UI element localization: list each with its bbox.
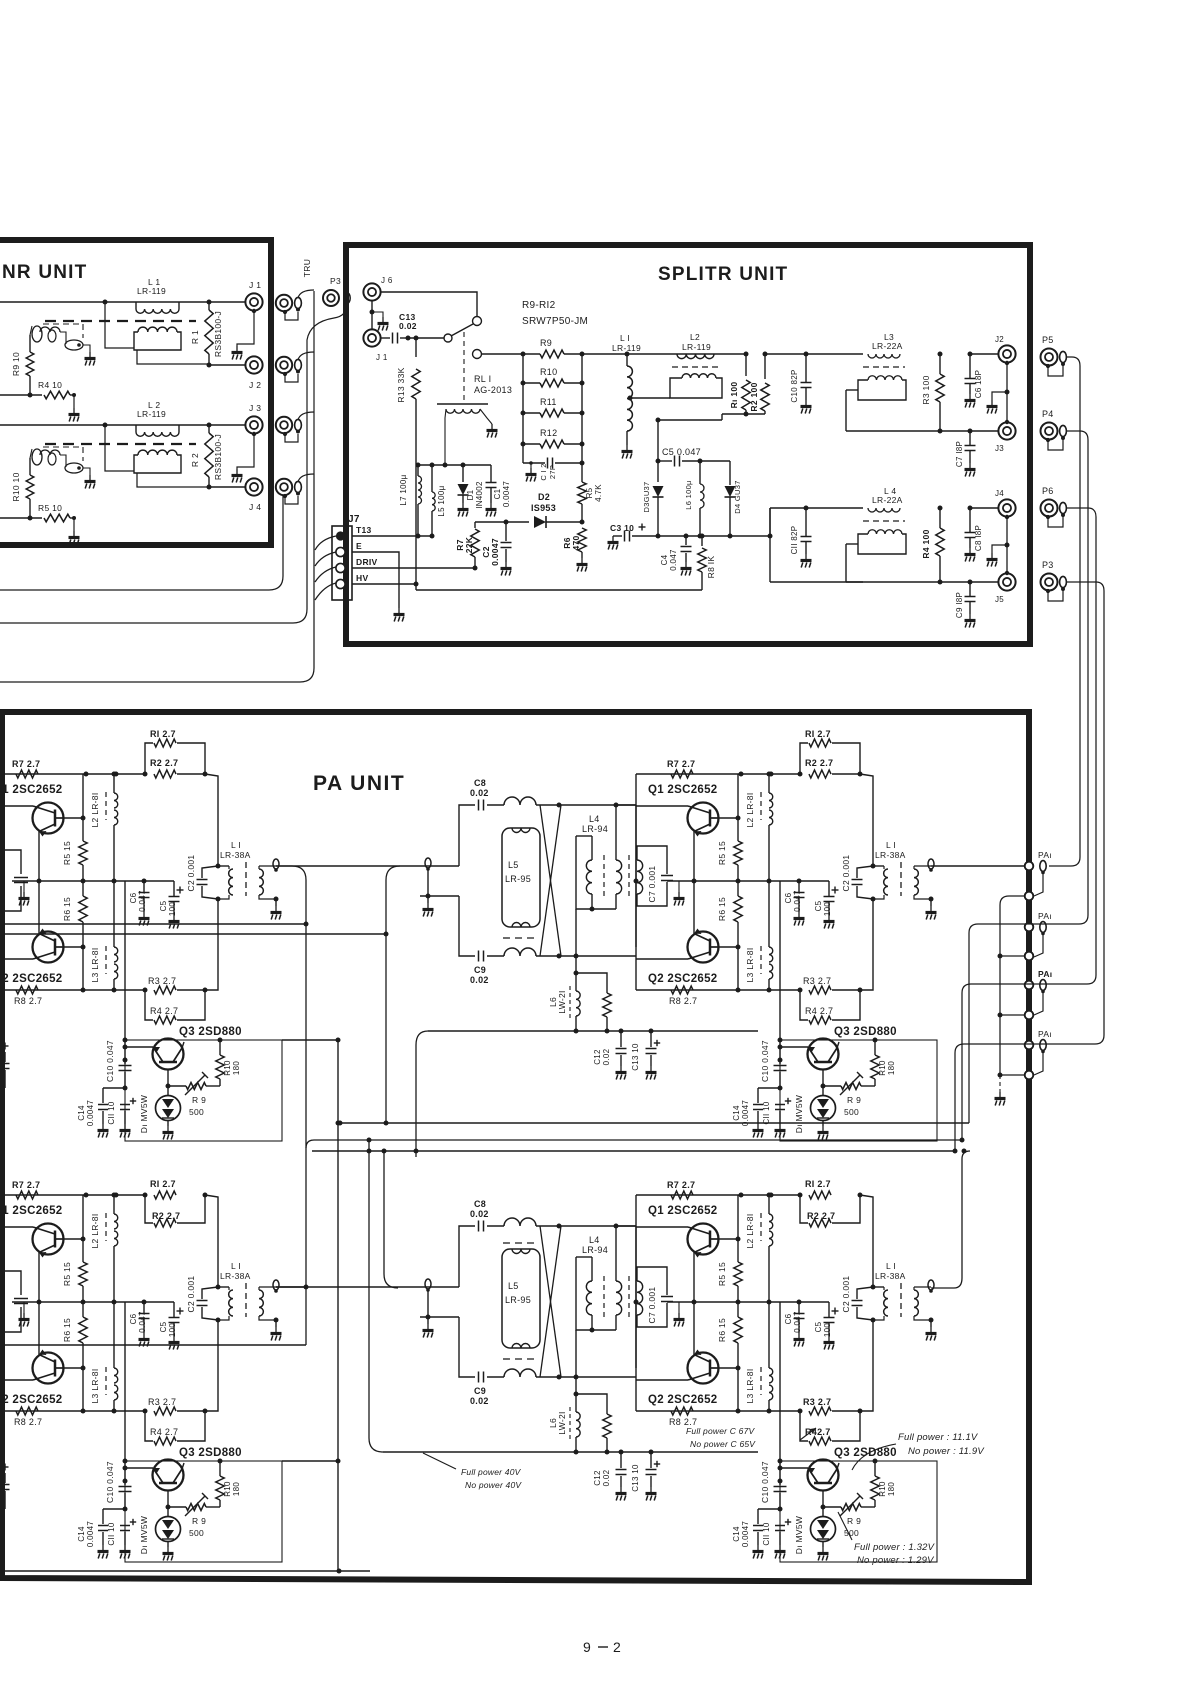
wire Q2 emitter (D) — [693, 1302, 695, 1355]
svg-text:P3: P3 — [330, 276, 341, 286]
svg-text:R3 2.7: R3 2.7 — [803, 976, 831, 986]
svg-text:Q3 2SD880: Q3 2SD880 — [179, 1026, 242, 1038]
svg-text:LR-38A: LR-38A — [220, 1271, 251, 1281]
svg-text:Q3 2SD880: Q3 2SD880 — [834, 1026, 897, 1038]
svg-text:L4: L4 — [589, 1235, 600, 1245]
svg-text:J2: J2 — [995, 335, 1004, 344]
coil top (top) — [504, 797, 536, 805]
svg-text:D2: D2 — [538, 492, 550, 502]
svg-text:No power : 1.29V: No power : 1.29V — [857, 1555, 935, 1566]
wire rail to C10 — [765, 353, 863, 355]
svg-text:D3GU37: D3GU37 — [642, 482, 651, 513]
svg-text:R9-RI2: R9-RI2 — [522, 300, 556, 311]
svg-text:LR-22A: LR-22A — [872, 495, 903, 505]
svg-text:L3 LR-8I: L3 LR-8I — [90, 947, 100, 982]
ground C6 18P — [969, 394, 971, 399]
svg-text:2: 2 — [613, 1639, 621, 1655]
svg-text:0.0047: 0.0047 — [741, 1521, 750, 1548]
wire L2 top rail — [677, 353, 746, 355]
capacitor C5 100 (C) — [177, 1310, 184, 1312]
svg-text:C10 0.047: C10 0.047 — [760, 1040, 770, 1082]
dashed coupling line NR ch2 — [45, 443, 196, 445]
wire bus vertical x338 — [337, 1040, 339, 1571]
wire PA1 inner stub y1015 — [1000, 1014, 1025, 1016]
wire bias feed (A) — [124, 881, 126, 1040]
svg-text:C10 0.047: C10 0.047 — [105, 1040, 115, 1082]
wire L 4 secondary to rail — [846, 543, 858, 545]
PA1 feedthrough connectors — [1025, 862, 1034, 871]
wire to C2 (A) — [205, 774, 218, 866]
mating plug pair J3 — [276, 417, 292, 433]
bias box (B) — [780, 1040, 937, 1141]
crossover wires (bottom) — [540, 1226, 561, 1377]
ground balun (top) — [427, 896, 429, 903]
svg-text:Q2 2SC2652: Q2 2SC2652 — [0, 973, 63, 985]
wire bottom rail combiner (bottom) — [536, 1376, 576, 1378]
wire Q1 base (D) — [636, 1226, 688, 1228]
wire top rail cell A — [0, 773, 146, 775]
svg-text:L I: L I — [886, 1261, 896, 1271]
svg-text:C I 2: C I 2 — [539, 463, 548, 480]
wire PA1 inner stub y1075 — [1000, 1074, 1025, 1076]
svg-text:R6 15: R6 15 — [62, 897, 72, 921]
ground C3 — [612, 536, 614, 541]
svg-text:TRU: TRU — [302, 259, 312, 277]
wire Q2 emitter (B) — [693, 881, 695, 934]
wire Q1 emitter (A) — [38, 831, 40, 881]
NR L2 secondary winding — [138, 450, 177, 455]
resistor ladder bus right — [581, 354, 583, 482]
svg-text:C6: C6 — [129, 892, 138, 903]
svg-text:100: 100 — [823, 1323, 832, 1337]
wire J6 to switch — [380, 292, 477, 316]
svg-text:0.047: 0.047 — [138, 890, 147, 912]
svg-text:R 9: R 9 — [847, 1095, 861, 1105]
svg-text:R5: R5 — [585, 487, 594, 498]
svg-text:R 9: R 9 — [847, 1516, 861, 1526]
svg-text:PAı: PAı — [1038, 1029, 1052, 1039]
coil bottom (top) — [504, 948, 536, 956]
svg-text:No power : 11.9V: No power : 11.9V — [908, 1446, 985, 1457]
svg-text:C2 0.001: C2 0.001 — [186, 1276, 196, 1313]
NR L1 secondary winding — [138, 327, 177, 332]
svg-text:CII 10: CII 10 — [107, 1101, 116, 1124]
svg-text:C14: C14 — [77, 1105, 86, 1121]
svg-text:R 2: R 2 — [190, 453, 200, 467]
svg-text:J 3: J 3 — [249, 403, 261, 413]
ground C1 — [490, 503, 492, 508]
wire bottom inner — [0, 1570, 370, 1572]
capacitor C5 100 (B) — [832, 889, 839, 891]
wire R2 to J 4 — [209, 486, 246, 488]
ground C12 (top) — [620, 1066, 622, 1071]
svg-text:RI 2.7: RI 2.7 — [805, 1179, 831, 1189]
wire cell A output down bus — [276, 866, 306, 1345]
svg-text:C14: C14 — [77, 1526, 86, 1542]
svg-text:C10 0.047: C10 0.047 — [760, 1461, 770, 1503]
svg-text:Q1 2SC2652: Q1 2SC2652 — [648, 784, 718, 796]
svg-text:J7: J7 — [348, 514, 360, 525]
output lead (D) — [928, 1280, 934, 1290]
wire Q2 base (D) — [636, 1379, 688, 1381]
wire bottom rail combiner (top) — [536, 955, 576, 957]
dashed core L5 (bottom) — [503, 1358, 538, 1360]
svg-text:L5 100μ: L5 100μ — [437, 485, 446, 516]
PA1 plug 3 return hook — [1034, 992, 1043, 1016]
wire Q3 base (A) — [125, 1046, 153, 1048]
svg-text:C7 0.001: C7 0.001 — [647, 866, 657, 903]
wire B+ vertical feed — [416, 1031, 428, 1157]
ground NR R4 — [73, 408, 75, 413]
svg-text:0.02: 0.02 — [602, 1469, 611, 1486]
svg-text:T13: T13 — [356, 525, 372, 535]
svg-text:R7 2.7: R7 2.7 — [12, 759, 40, 769]
svg-text:J 1: J 1 — [376, 353, 388, 362]
PA1 plug 4 return hook — [1034, 1052, 1043, 1076]
transformer L5 LR-95 (bottom) — [502, 1249, 540, 1348]
J7 pin HV — [336, 579, 345, 588]
svg-text:500: 500 — [844, 1107, 859, 1117]
wire top rail cell B — [636, 773, 801, 775]
ground C14 (D) — [757, 1545, 759, 1550]
svg-text:PA UNIT: PA UNIT — [313, 772, 405, 795]
svg-text:L3 LR-8I: L3 LR-8I — [90, 1368, 100, 1403]
svg-text:C2 0.001: C2 0.001 — [841, 855, 851, 892]
ground D1 (D) — [822, 1541, 824, 1547]
svg-text:C2 0.001: C2 0.001 — [186, 855, 196, 892]
svg-text:RI 2.7: RI 2.7 — [150, 729, 176, 739]
wire Q1 base (B) — [636, 805, 688, 807]
resistor R1 RS3B100-J — [208, 302, 210, 310]
P plug mates — [1060, 351, 1067, 362]
wire L4 bottom (top) — [575, 909, 577, 956]
wire diode node rail — [658, 535, 770, 537]
wire balun (top) — [427, 869, 429, 896]
svg-text:C5: C5 — [814, 900, 823, 911]
svg-text:C13 10: C13 10 — [631, 1043, 640, 1071]
J7 pin DRIV — [336, 563, 345, 572]
svg-text:Full power C 67V: Full power C 67V — [686, 1426, 756, 1436]
svg-text:Dı MV5W: Dı MV5W — [794, 1095, 804, 1133]
ground C14 (B) — [757, 1124, 759, 1129]
ground emitter (C) — [23, 1302, 25, 1313]
svg-text:L3 LR-8I: L3 LR-8I — [745, 947, 755, 982]
wire Q1 collector (D) — [718, 1238, 738, 1240]
svg-text:R13 33K: R13 33K — [396, 367, 406, 402]
ground C8 I8P — [969, 548, 971, 553]
svg-text:IS953: IS953 — [531, 503, 556, 513]
svg-text:LR-95: LR-95 — [505, 874, 531, 884]
input lead circle — [473, 350, 482, 359]
connector J7 block — [332, 526, 352, 600]
wire T13 feed — [352, 535, 432, 537]
wire bias feed (B) — [779, 881, 781, 1040]
wire top rail combiner (top) — [536, 804, 636, 806]
svg-text:P4: P4 — [1042, 409, 1054, 419]
ground C11 (C) — [124, 1545, 126, 1550]
svg-text:0.0047: 0.0047 — [86, 1100, 95, 1127]
wire mate bundle vertical — [313, 291, 315, 474]
svg-text:AG-2013: AG-2013 — [474, 385, 512, 395]
ground D1 (C) — [167, 1541, 169, 1547]
ground C5 (A) — [173, 915, 175, 920]
wire NR top rail ch2 — [0, 424, 246, 426]
svg-text:L2 LR-8I: L2 LR-8I — [90, 792, 100, 827]
ground C12 — [530, 463, 532, 468]
wire cell D output routing — [931, 1151, 970, 1288]
svg-text:0.02: 0.02 — [470, 975, 489, 985]
svg-text:C14: C14 — [732, 1105, 741, 1121]
svg-text:100: 100 — [168, 1323, 177, 1337]
ground C11 (A) — [124, 1124, 126, 1129]
wire bias feed (C) — [124, 1302, 126, 1461]
wire harness exit 1 — [0, 496, 283, 590]
ground emitter (A) — [23, 881, 25, 892]
wire R1 R2 bottom — [722, 413, 765, 415]
svg-text:C10 82P: C10 82P — [790, 369, 799, 402]
ground C6 (B) — [798, 912, 800, 917]
svg-text:NR UNIT: NR UNIT — [2, 262, 87, 283]
svg-text:R8 IK: R8 IK — [706, 556, 716, 579]
ground right bus — [999, 1075, 1001, 1092]
svg-text:J5: J5 — [995, 595, 1004, 604]
wire bias rail cell C to bus — [282, 1460, 338, 1462]
wire lower half feed — [769, 508, 771, 536]
svg-text:R10: R10 — [540, 367, 557, 377]
NR UNIT box — [0, 240, 271, 545]
wire Q2 base (C) — [0, 1379, 33, 1381]
output lead (C) — [273, 1280, 279, 1290]
svg-text:Q2 2SC2652: Q2 2SC2652 — [648, 973, 718, 985]
wire mid horizontal y924 — [0, 923, 306, 925]
wire J7 pin hooks — [315, 536, 336, 550]
svg-text:Q1 2SC2652: Q1 2SC2652 — [0, 1205, 63, 1217]
svg-text:R8 2.7: R8 2.7 — [669, 996, 697, 1006]
svg-text:R9: R9 — [540, 338, 552, 348]
svg-text:RS3B100-J: RS3B100-J — [213, 434, 223, 480]
wire J6-J1 link — [371, 300, 373, 330]
wire bus y1140 — [306, 1140, 962, 1148]
bias box (D) — [780, 1461, 937, 1562]
wire cell B output to PA1 — [931, 865, 1025, 867]
svg-text:C14: C14 — [732, 1526, 741, 1542]
svg-text:P3: P3 — [1042, 560, 1054, 570]
svg-text:500: 500 — [189, 1528, 204, 1538]
coil top (bottom) — [504, 1218, 536, 1226]
mating plug pair J4 — [276, 479, 292, 495]
SPLITR UNIT box — [346, 245, 1030, 644]
svg-text:0.02: 0.02 — [399, 321, 417, 331]
wire mid horizontal y934 — [0, 933, 386, 935]
wire Q3 emitter (B) — [822, 1070, 824, 1096]
wire balun (bottom) — [427, 1290, 429, 1317]
svg-text:R 1: R 1 — [190, 330, 200, 344]
ground L1 out (B) — [930, 899, 932, 906]
svg-text:R2 2.7: R2 2.7 — [150, 758, 178, 768]
cut capacitor fragment left edge (top) — [2, 1045, 9, 1047]
svg-text:Full power 40V: Full power 40V — [461, 1467, 522, 1477]
wire Q2 base (A) — [0, 958, 33, 960]
ground C11 (B) — [779, 1124, 781, 1129]
svg-text:R5 15: R5 15 — [62, 841, 72, 865]
wire Q1 base (C) — [0, 1226, 33, 1228]
J7 pin T13 — [336, 531, 345, 540]
svg-text:CII 82P: CII 82P — [790, 526, 799, 555]
svg-text:Q2 2SC2652: Q2 2SC2652 — [0, 1394, 63, 1406]
svg-text:9: 9 — [583, 1639, 591, 1655]
svg-text:C5: C5 — [814, 1321, 823, 1332]
svg-text:C13 10: C13 10 — [631, 1464, 640, 1492]
svg-text:Dı MV5W: Dı MV5W — [139, 1516, 149, 1554]
wire Q3 emitter (C) — [167, 1491, 169, 1517]
svg-text:C5: C5 — [159, 1321, 168, 1332]
svg-text:R6 15: R6 15 — [717, 1318, 727, 1342]
svg-text:C9: C9 — [474, 965, 486, 975]
transformer L5 LR-95 (top) — [502, 828, 540, 927]
wire bottom rail (A) — [0, 989, 145, 991]
ground C5 (C) — [173, 1336, 175, 1341]
relay contact throw — [473, 317, 482, 326]
transformer bead pair (top) — [637, 860, 643, 894]
output lead (A) — [273, 859, 279, 869]
ground NR bead ch2 — [89, 475, 91, 480]
svg-text:PAı: PAı — [1038, 850, 1052, 860]
wire input rail (bottom) — [276, 1286, 459, 1288]
wire HV — [352, 583, 416, 585]
svg-text:R11: R11 — [540, 397, 557, 407]
svg-text:C8: C8 — [474, 1199, 486, 1209]
dashed core L2 — [672, 366, 720, 368]
svg-text:J 6: J 6 — [381, 276, 393, 285]
svg-text:R5 15: R5 15 — [717, 841, 727, 865]
wire bottom rail (B) — [636, 989, 800, 991]
svg-text:100: 100 — [823, 902, 832, 916]
wire Q3 base (B) — [780, 1046, 808, 1048]
svg-text:IN4002: IN4002 — [475, 481, 484, 509]
svg-text:L4: L4 — [589, 814, 600, 824]
svg-text:R5 15: R5 15 — [717, 1262, 727, 1286]
svg-text:Rı 100: Rı 100 — [729, 382, 739, 409]
svg-text:C9 I8P: C9 I8P — [955, 592, 964, 618]
wire top rail combiner (bottom) — [536, 1225, 636, 1227]
wire top balun feed — [386, 866, 400, 1123]
wire combiner to bases (bottom) — [616, 1225, 636, 1227]
svg-text:180: 180 — [232, 1061, 241, 1075]
svg-text:0.047: 0.047 — [793, 1311, 802, 1333]
svg-text:C5: C5 — [159, 900, 168, 911]
ground C11 (D) — [779, 1545, 781, 1550]
svg-text:C12: C12 — [593, 1049, 602, 1065]
svg-text:L2 LR-8I: L2 LR-8I — [745, 1213, 755, 1248]
wire Q2 base (B) — [636, 958, 688, 960]
ground J7 E — [398, 608, 400, 613]
dashed core L4 (top) — [603, 855, 605, 900]
svg-text:R5 10: R5 10 — [38, 503, 62, 513]
wire Q1 collector (B) — [718, 817, 738, 819]
svg-text:L I: L I — [231, 1261, 241, 1271]
wire top rail cell D — [636, 1194, 801, 1196]
svg-text:J3: J3 — [995, 444, 1004, 453]
ground relay coil — [491, 424, 493, 429]
ferrite bead NR ch2 — [65, 463, 83, 473]
svg-text:R3 100: R3 100 — [921, 375, 931, 404]
wire bottom balun feed — [384, 1151, 398, 1288]
wire C2 node to R3 (B) — [860, 899, 873, 990]
svg-text:R6 15: R6 15 — [717, 897, 727, 921]
relay dashed link — [463, 332, 465, 400]
ground L1 out (A) — [275, 899, 277, 906]
wire emitter rail (C) — [12, 1301, 174, 1303]
svg-text:No power 40V: No power 40V — [465, 1480, 522, 1490]
svg-text:J 2: J 2 — [249, 380, 261, 390]
ground C6 (D) — [798, 1333, 800, 1338]
svg-text:LR-38A: LR-38A — [875, 850, 906, 860]
svg-text:C12: C12 — [593, 1470, 602, 1486]
wire relay to D1 rail — [418, 464, 491, 466]
wire Q1 collector (C) — [63, 1238, 83, 1240]
svg-text:L I: L I — [231, 840, 241, 850]
wire R1 to J 2 — [209, 364, 246, 366]
ground L1 out (D) — [930, 1320, 932, 1327]
svg-text:R 9: R 9 — [192, 1095, 206, 1105]
svg-text:R8 2.7: R8 2.7 — [14, 1417, 42, 1427]
wire L3 secondary to rail — [846, 389, 858, 391]
ground D1 — [462, 503, 464, 508]
dashed box NR ch1 — [43, 323, 83, 325]
wire C2 node to R3 (D) — [860, 1320, 873, 1411]
ground L1 splitr — [626, 445, 628, 450]
svg-text:PAı: PAı — [1038, 969, 1052, 979]
svg-text:LR-94: LR-94 — [582, 1245, 608, 1255]
svg-text:Full power : 1.32V: Full power : 1.32V — [854, 1542, 936, 1553]
ground C13 (bottom) — [650, 1487, 652, 1492]
svg-text:LR-38A: LR-38A — [875, 1271, 906, 1281]
wire Q3 base (C) — [125, 1467, 153, 1469]
ground C6 (C) — [143, 1333, 145, 1338]
svg-text:R4 100: R4 100 — [921, 529, 931, 558]
transformer bead pair (bottom) — [637, 1281, 643, 1315]
svg-text:R2 2.7: R2 2.7 — [805, 758, 833, 768]
svg-text:R4 10: R4 10 — [38, 380, 62, 390]
wire J4-J5 link grounded — [1005, 515, 1009, 519]
svg-text:CII 10: CII 10 — [762, 1522, 771, 1545]
wire C2 node to R3 (C) — [205, 1320, 218, 1411]
svg-text:C5 0.047: C5 0.047 — [662, 447, 701, 457]
svg-text:0.02: 0.02 — [470, 1396, 489, 1406]
svg-text:R8 2.7: R8 2.7 — [14, 996, 42, 1006]
svg-text:C6: C6 — [784, 1313, 793, 1324]
svg-text:LR-119: LR-119 — [137, 409, 166, 419]
ground R6 — [581, 558, 583, 563]
svg-text:4.7K: 4.7K — [594, 484, 603, 502]
svg-text:E: E — [356, 541, 362, 551]
svg-text:L I: L I — [886, 840, 896, 850]
ground C4 — [685, 562, 687, 567]
relay contact pole — [444, 334, 452, 342]
ground C14 (C) — [102, 1545, 104, 1550]
svg-text:L2 LR-8I: L2 LR-8I — [745, 792, 755, 827]
svg-text:0.047: 0.047 — [138, 1311, 147, 1333]
svg-text:PAı: PAı — [1038, 911, 1052, 921]
svg-text:RL I: RL I — [474, 374, 491, 384]
wire to C2 (B) — [860, 774, 873, 866]
svg-text:Q3 2SD880: Q3 2SD880 — [179, 1447, 242, 1459]
ground C5 (D) — [828, 1336, 830, 1341]
dashed core L4 (bottom) — [603, 1276, 605, 1321]
ground C6 (A) — [143, 912, 145, 917]
wire Q2 emitter (A) — [38, 881, 40, 934]
svg-text:R6 15: R6 15 — [62, 1318, 72, 1342]
